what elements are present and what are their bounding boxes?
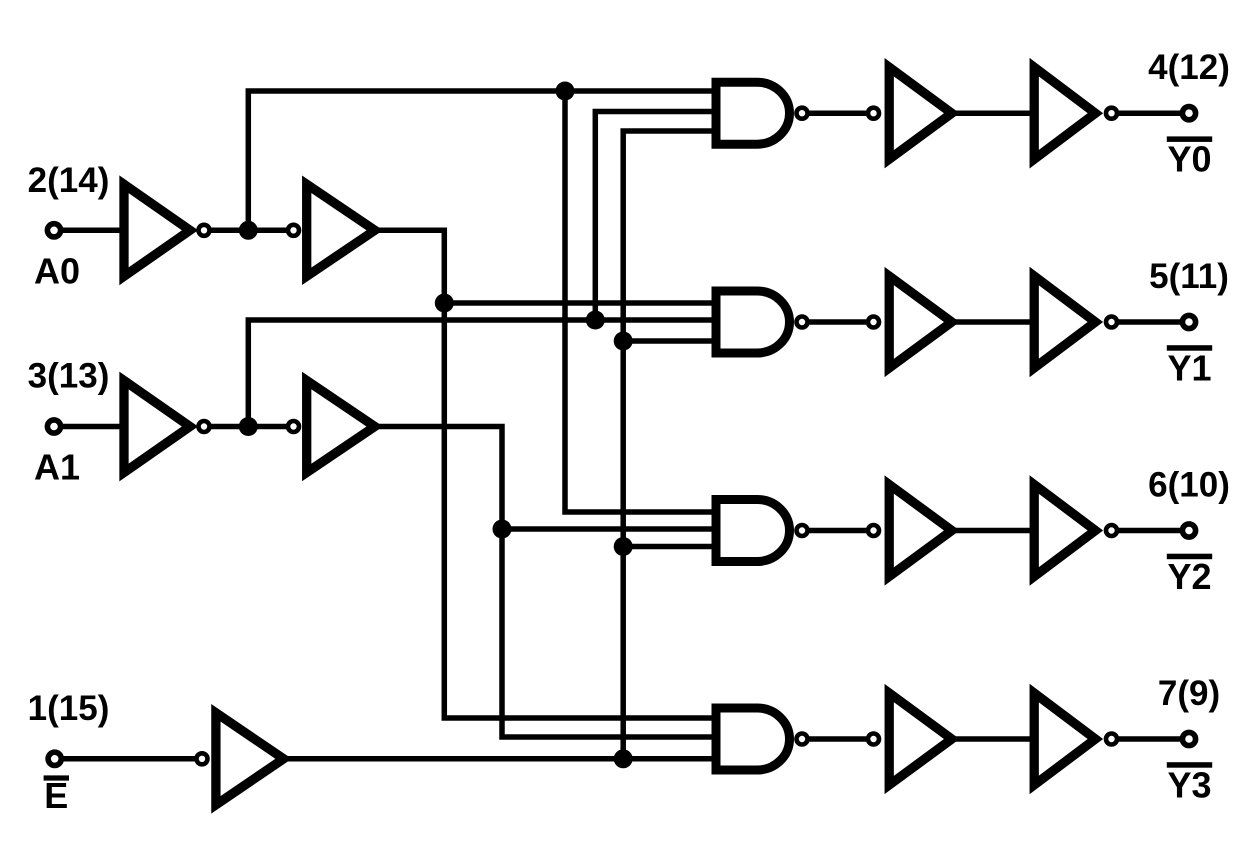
wire E branch to NAND3 input bbox=[623, 544, 711, 550]
buffer U9B (Y0) bbox=[1034, 67, 1117, 159]
node A0 junction bbox=[435, 294, 454, 313]
output terminal pin 4(12) bbox=[1182, 107, 1195, 120]
node /A1 junction bbox=[239, 417, 258, 436]
wire Y0 output bbox=[1118, 110, 1182, 116]
svg-text:A0: A0 bbox=[34, 250, 80, 291]
input terminal pin 3(13) A1 bbox=[47, 420, 60, 433]
wire /A0 to NAND1 input bbox=[248, 91, 711, 230]
wire buffer stage1 to stage2 (Y2) bbox=[955, 528, 1035, 534]
input terminal pin 2(14) A0 bbox=[47, 224, 60, 237]
buffer U12A (Y3) bbox=[868, 693, 952, 785]
wire A1 buffer to NAND4 input bbox=[378, 427, 712, 738]
wire NAND2 output to buffer bbox=[809, 319, 866, 325]
wire E buffer to NAND4 input bbox=[284, 756, 712, 762]
wire A0 terminal to inverter bbox=[54, 228, 125, 234]
output terminal pin 7(9) bbox=[1182, 732, 1195, 745]
buffer U3 (enable) bbox=[197, 713, 284, 805]
NAND gate U6 (Y1) bbox=[716, 291, 808, 353]
label /Y1 overbar bbox=[1167, 345, 1212, 351]
wire Y1 output bbox=[1118, 319, 1182, 325]
buffer U12B (Y3) bbox=[1034, 693, 1117, 785]
wire NAND3 output to buffer bbox=[809, 528, 866, 534]
inverter U1B (A1) bbox=[124, 381, 210, 473]
label /Y3 overbar bbox=[1167, 762, 1212, 768]
svg-text:Y3: Y3 bbox=[1167, 765, 1211, 806]
buffer U2A (A0) bbox=[288, 184, 375, 276]
svg-text:Y1: Y1 bbox=[1167, 348, 1211, 389]
wire /A0 branch to NAND3 input bbox=[565, 91, 712, 512]
NAND gate U5 (Y0) bbox=[716, 82, 808, 144]
wire /A1 branch to NAND1 input bbox=[595, 112, 711, 321]
svg-text:3(13): 3(13) bbox=[28, 357, 110, 396]
wire A0 buffer to NAND4 input bbox=[378, 230, 712, 718]
wire A1 terminal to inverter bbox=[54, 424, 125, 430]
inverter U1A (A0) bbox=[124, 184, 210, 276]
wire Y3 output bbox=[1118, 736, 1182, 742]
wire A1 branch to NAND3 input bbox=[502, 526, 712, 532]
svg-text:5(11): 5(11) bbox=[1149, 257, 1229, 296]
NAND gate U8 (Y3) bbox=[716, 708, 808, 770]
node E junction NAND4 row bbox=[614, 749, 633, 768]
wire Y2 output bbox=[1118, 528, 1182, 534]
label /Y2 overbar bbox=[1167, 554, 1212, 560]
wire A0 branch to NAND2 input bbox=[444, 300, 711, 306]
input terminal pin 1(15) /E bbox=[48, 752, 61, 765]
svg-text:Y0: Y0 bbox=[1167, 139, 1211, 180]
label /Y0 overbar bbox=[1167, 136, 1212, 142]
NAND gate U7 (Y2) bbox=[716, 500, 808, 562]
node /A0 junction bbox=[239, 221, 258, 240]
svg-text:7(9): 7(9) bbox=[1158, 674, 1220, 713]
svg-text:Y2: Y2 bbox=[1167, 556, 1211, 597]
node /A1 mid-wire junction bbox=[586, 311, 605, 330]
node A1 junction bbox=[493, 520, 512, 539]
svg-text:2(14): 2(14) bbox=[28, 161, 110, 200]
svg-text:4(12): 4(12) bbox=[1148, 48, 1230, 87]
node E junction NAND2 branch bbox=[614, 332, 633, 351]
wire /A1 to NAND2 input bbox=[248, 320, 711, 427]
buffer U2B (A1) bbox=[288, 381, 375, 473]
wire NAND4 output to buffer bbox=[809, 736, 866, 742]
buffer U10B (Y1) bbox=[1034, 276, 1117, 368]
wire E branch to NAND2 input bbox=[623, 338, 711, 344]
wire buffer stage1 to stage2 (Y1) bbox=[955, 319, 1035, 325]
svg-text:A1: A1 bbox=[34, 447, 80, 488]
wire NAND1 output to buffer bbox=[809, 110, 866, 116]
node E junction NAND3 branch bbox=[614, 537, 633, 556]
buffer U11A (Y2) bbox=[868, 485, 952, 577]
wire buffer stage1 to stage2 (Y0) bbox=[955, 110, 1035, 116]
buffer U11B (Y2) bbox=[1034, 485, 1117, 577]
svg-text:E: E bbox=[44, 775, 68, 816]
wire A1 inverter to buffer bbox=[199, 424, 295, 430]
wire E riser to NAND1 input bbox=[623, 131, 711, 759]
svg-text:1(15): 1(15) bbox=[28, 689, 110, 728]
node /A0 top-wire junction bbox=[556, 82, 575, 101]
wire buffer stage1 to stage2 (Y3) bbox=[955, 736, 1035, 742]
svg-text:6(10): 6(10) bbox=[1148, 466, 1230, 505]
buffer U10A (Y1) bbox=[868, 276, 952, 368]
label /E overbar bbox=[44, 775, 69, 780]
wire A0 inverter to buffer bbox=[199, 228, 295, 234]
buffer U9A (Y0) bbox=[868, 67, 952, 159]
output terminal pin 5(11) bbox=[1182, 315, 1195, 328]
wire /E terminal to buffer bbox=[55, 756, 202, 762]
output terminal pin 6(10) bbox=[1182, 524, 1195, 537]
